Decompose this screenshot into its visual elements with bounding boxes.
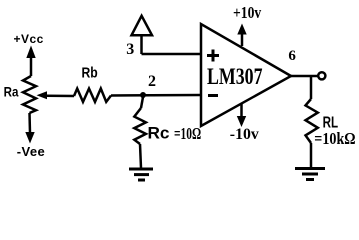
svg-text:+10v: +10v	[233, 3, 262, 22]
svg-text:=10Ω: =10Ω	[174, 124, 201, 143]
svg-text:+Vcc: +Vcc	[14, 32, 44, 46]
svg-text:6: 6	[288, 48, 296, 64]
svg-text:3: 3	[126, 41, 134, 58]
svg-text:Ra: Ra	[4, 84, 19, 100]
svg-text:Rb: Rb	[82, 65, 98, 82]
svg-text:2: 2	[148, 73, 156, 90]
svg-text:LM307: LM307	[207, 64, 263, 89]
svg-text:-10v: -10v	[230, 126, 259, 143]
svg-text:-Vee: -Vee	[17, 144, 45, 159]
svg-text:Rc: Rc	[148, 124, 170, 142]
svg-text:=10kΩ: =10kΩ	[314, 129, 355, 148]
